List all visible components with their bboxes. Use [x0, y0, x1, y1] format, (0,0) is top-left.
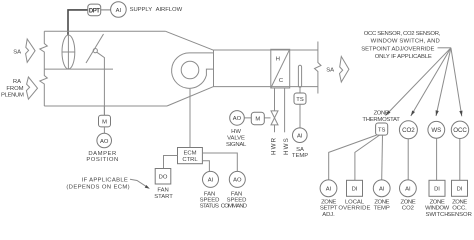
point AO hw valve	[230, 111, 245, 126]
svg-text:ONLY IF APPLICABLE: ONLY IF APPLICABLE	[375, 54, 432, 60]
svg-text:CTRL: CTRL	[182, 157, 198, 163]
svg-text:OVERRIDE: OVERRIDE	[338, 206, 370, 212]
svg-text:AO: AO	[233, 116, 242, 122]
point CO2	[399, 121, 417, 139]
duct mixing box top line	[44, 30, 165, 32]
svg-text:COMMAND: COMMAND	[221, 203, 247, 209]
RA inlet arrow	[26, 77, 37, 99]
wire TS to AI	[299, 104, 301, 128]
wire ECM to DO	[164, 156, 178, 169]
svg-text:AI: AI	[208, 178, 214, 184]
svg-text:STATUS: STATUS	[200, 203, 219, 209]
svg-text:DO: DO	[159, 175, 168, 181]
arrow to TS thermostat	[386, 48, 451, 116]
TS sensor sa temp	[294, 93, 306, 104]
svg-text:M: M	[102, 119, 107, 125]
svg-text:ECM: ECM	[184, 150, 197, 156]
point AI zone setpt adj	[320, 180, 337, 197]
svg-text:SA: SA	[326, 67, 334, 73]
svg-text:TS: TS	[378, 127, 386, 133]
point AO fan speed command	[229, 171, 245, 187]
svg-text:SA: SA	[13, 49, 21, 55]
HW valve body	[271, 111, 278, 125]
point DI local override	[347, 180, 363, 196]
HWS pipe	[284, 88, 286, 132]
svg-text:AI: AI	[405, 187, 411, 193]
svg-text:CO2: CO2	[402, 206, 414, 212]
svg-text:WINDOW: WINDOW	[425, 206, 450, 212]
point AI fan speed status	[203, 171, 219, 187]
note leader line	[438, 47, 451, 49]
wire WS to DI window switch	[436, 138, 438, 180]
TS zone thermostat	[376, 123, 388, 135]
duct bottom line	[44, 105, 167, 107]
svg-text:LOCAL: LOCAL	[345, 199, 365, 205]
wire DPT to AI	[101, 9, 111, 11]
arrow to CO2	[411, 48, 451, 116]
svg-text:VALVE: VALVE	[227, 136, 245, 142]
svg-text:FROM: FROM	[6, 86, 23, 92]
point DI zone occ sensor	[452, 180, 468, 196]
svg-text:C: C	[279, 78, 283, 84]
svg-text:ZONE: ZONE	[321, 199, 336, 205]
svg-text:CO2: CO2	[402, 127, 415, 134]
svg-text:ZONE: ZONE	[430, 199, 445, 205]
point AI supply airflow	[111, 2, 127, 18]
damper actuator M	[99, 115, 111, 127]
svg-text:WS: WS	[431, 127, 441, 134]
svg-text:DPT: DPT	[89, 8, 100, 14]
svg-text:RA: RA	[13, 79, 21, 85]
duct sloped bottom	[167, 87, 214, 106]
svg-text:DI: DI	[457, 187, 463, 193]
svg-text:THERMOSTAT: THERMOSTAT	[362, 117, 400, 123]
wire TS to DI local override	[355, 135, 380, 180]
svg-text:H: H	[276, 57, 280, 63]
svg-text:POSITION: POSITION	[86, 157, 119, 163]
SA outlet arrow	[340, 57, 349, 83]
duct left edge with breaks	[40, 31, 48, 106]
svg-text:SUPPLY: SUPPLY	[130, 7, 153, 13]
duct mid line	[44, 68, 113, 70]
point OCC	[451, 121, 468, 138]
svg-text:TEMP: TEMP	[374, 206, 390, 212]
svg-text:AI: AI	[379, 187, 385, 193]
wire TS to AI zone temp	[381, 135, 384, 180]
svg-text:OCC SENSOR, CO2 SENSOR,: OCC SENSOR, CO2 SENSOR,	[364, 31, 441, 37]
svg-text:AIRFLOW: AIRFLOW	[156, 7, 183, 13]
svg-text:ZONE: ZONE	[374, 199, 389, 205]
svg-text:SETPT: SETPT	[320, 206, 338, 212]
svg-text:SA: SA	[296, 147, 304, 153]
point AI sa temp	[293, 128, 308, 143]
valve actuator M	[251, 112, 264, 125]
svg-text:START: START	[154, 194, 173, 200]
HWR pipe	[274, 88, 276, 132]
point AI zone temp	[373, 180, 390, 197]
fan scroll casing	[172, 53, 214, 88]
wire M to AO	[103, 127, 105, 133]
svg-text:SETPOINT ADJ/OVERRIDE: SETPOINT ADJ/OVERRIDE	[361, 46, 434, 52]
svg-text:DI: DI	[434, 187, 440, 193]
wire duct to damper actuator	[103, 106, 105, 115]
svg-text:AI: AI	[297, 134, 303, 140]
discharge duct left edge	[213, 50, 215, 86]
svg-text:AO: AO	[100, 139, 109, 145]
wire AO to valve actuator	[244, 117, 270, 119]
point DO fan start	[155, 169, 171, 185]
svg-text:AO: AO	[233, 178, 242, 184]
svg-text:FAN: FAN	[157, 188, 168, 194]
SA temp probe	[298, 65, 301, 87]
DPT transmitter	[88, 4, 101, 16]
heating/cooling coil	[271, 49, 290, 88]
svg-text:IF APPLICABLE: IF APPLICABLE	[82, 177, 128, 183]
damper linkage	[97, 52, 105, 115]
svg-text:WINDOW SWITCH, AND: WINDOW SWITCH, AND	[371, 39, 440, 45]
svg-text:(DEPENDS ON ECM): (DEPENDS ON ECM)	[66, 185, 130, 191]
svg-text:ZONE: ZONE	[401, 199, 416, 205]
svg-text:OCC: OCC	[453, 127, 467, 134]
svg-text:ZONE: ZONE	[452, 199, 467, 205]
SA inlet arrow	[26, 39, 35, 62]
svg-text:SIGNAL: SIGNAL	[226, 142, 247, 148]
svg-text:TEMP: TEMP	[292, 153, 308, 159]
wire fan to ECM	[189, 89, 191, 148]
svg-text:SWITCH: SWITCH	[426, 212, 449, 218]
svg-text:TS: TS	[296, 97, 304, 103]
svg-text:PLENUM: PLENUM	[1, 93, 24, 99]
fan wheel	[181, 61, 199, 79]
point DI zone window switch	[429, 180, 445, 196]
svg-text:SENSOR: SENSOR	[447, 212, 472, 218]
svg-text:HWR: HWR	[271, 137, 278, 155]
svg-text:AI: AI	[116, 8, 122, 14]
damper blade	[86, 34, 104, 63]
point AO damper position	[97, 133, 112, 148]
svg-text:HWS: HWS	[283, 137, 290, 155]
ECM controller	[178, 148, 203, 164]
svg-text:DI: DI	[352, 187, 358, 193]
leader to FAN START	[130, 179, 148, 187]
wire TS to AI zone setpt	[329, 135, 377, 180]
svg-text:M: M	[255, 117, 260, 123]
svg-text:ADJ.: ADJ.	[322, 212, 335, 218]
duct break symbol	[315, 42, 322, 94]
wire DPT to airflow station	[68, 10, 88, 35]
airflow measuring station	[62, 35, 75, 69]
damper pivot	[93, 49, 97, 53]
svg-text:OCC.: OCC.	[452, 206, 467, 212]
leader arrowhead	[145, 185, 150, 189]
svg-text:HW: HW	[231, 129, 241, 135]
wire ECM to AI fan speed	[202, 161, 209, 172]
discharge duct bottom line	[214, 86, 318, 88]
wire OCC to DI occ sensor	[459, 139, 461, 181]
duct sloped top	[166, 31, 214, 50]
point WS	[428, 121, 445, 138]
svg-text:ZONE: ZONE	[374, 110, 389, 116]
discharge duct top line	[214, 49, 318, 51]
wire CO2 to AI zone co2	[407, 139, 409, 180]
wire ECM to AO fan speed	[202, 153, 237, 171]
point AI zone co2	[400, 180, 417, 197]
arrow to OCC	[451, 48, 463, 117]
arrow to WS	[436, 48, 451, 116]
svg-text:AI: AI	[326, 187, 332, 193]
wire probe to TS	[299, 87, 301, 93]
